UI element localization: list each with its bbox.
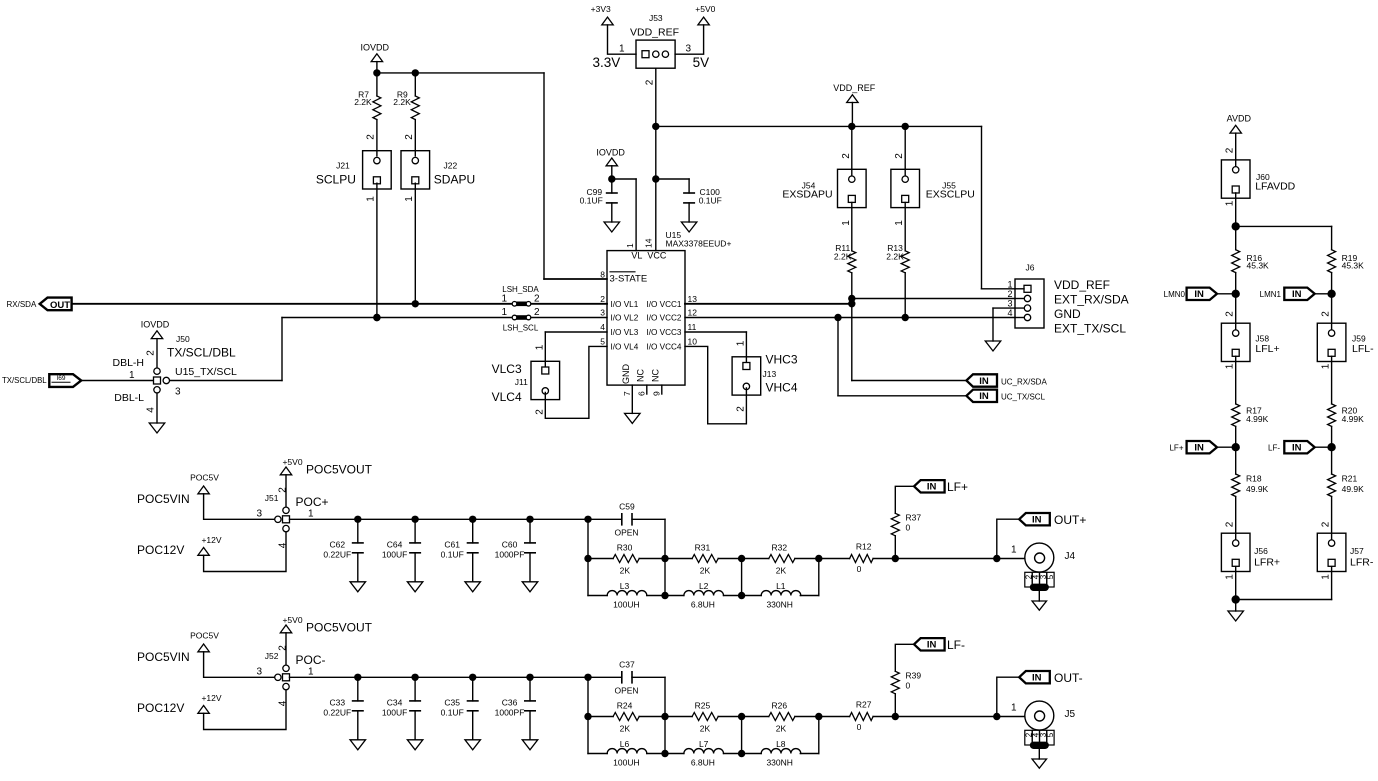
svg-text:I/O VCC4: I/O VCC4 [646, 343, 681, 352]
svg-text:0.22UF: 0.22UF [323, 549, 351, 559]
svg-text:VHC4: VHC4 [766, 381, 798, 395]
svg-text:1: 1 [894, 220, 905, 226]
svg-text:IN: IN [927, 482, 937, 493]
svg-text:3.3V: 3.3V [593, 55, 621, 70]
svg-text:POC-: POC- [296, 653, 326, 667]
svg-text:VDD_REF: VDD_REF [630, 27, 679, 39]
svg-text:VDD_REF: VDD_REF [1054, 278, 1110, 292]
svg-text:NC: NC [650, 369, 660, 382]
svg-text:I/O VCC3: I/O VCC3 [646, 328, 681, 337]
svg-text:R30: R30 [617, 543, 633, 553]
svg-text:12: 12 [688, 308, 698, 318]
svg-text:EXT_TX/SCL: EXT_TX/SCL [1054, 322, 1126, 336]
svg-text:2: 2 [534, 294, 540, 305]
svg-text:J50: J50 [176, 334, 190, 344]
svg-text:EXT_RX/SDA: EXT_RX/SDA [1054, 293, 1129, 307]
svg-text:U15_TX/SCL: U15_TX/SCL [175, 366, 237, 378]
svg-text:1: 1 [1321, 574, 1332, 580]
svg-text:EXSCLPU: EXSCLPU [926, 189, 975, 201]
svg-text:LFR+: LFR+ [1254, 556, 1280, 568]
svg-text:POC5VOUT: POC5VOUT [306, 621, 373, 635]
svg-text:UC_RX/SDA: UC_RX/SDA [1001, 377, 1047, 386]
svg-text:4: 4 [277, 700, 288, 706]
svg-text:MAX3378EEUD+: MAX3378EEUD+ [666, 238, 732, 248]
svg-text:+5V0: +5V0 [282, 615, 302, 625]
svg-text:J5: J5 [1065, 709, 1076, 720]
svg-text:2: 2 [894, 153, 905, 159]
svg-text:3: 3 [175, 387, 181, 398]
svg-text:+5V0: +5V0 [695, 4, 715, 14]
svg-text:1: 1 [501, 294, 507, 305]
svg-text:GND: GND [621, 364, 631, 385]
svg-text:R24: R24 [617, 701, 633, 711]
svg-text:2K: 2K [620, 723, 631, 733]
svg-text:1000PF: 1000PF [495, 549, 525, 559]
svg-text:LF-: LF- [947, 638, 965, 652]
svg-text:2: 2 [735, 406, 746, 412]
svg-text:1: 1 [735, 340, 746, 346]
svg-text:1: 1 [1225, 574, 1236, 580]
svg-text:+12V: +12V [201, 693, 221, 703]
svg-text:R26: R26 [772, 701, 788, 711]
svg-text:LFR-: LFR- [1350, 556, 1374, 568]
svg-text:IN: IN [1032, 673, 1042, 684]
svg-text:2K: 2K [620, 565, 631, 575]
svg-text:13: 13 [688, 294, 698, 304]
svg-text:+3V3: +3V3 [591, 4, 611, 14]
svg-text:C33: C33 [330, 698, 346, 708]
svg-text:DBL-H: DBL-H [112, 357, 144, 369]
svg-text:J57: J57 [1350, 546, 1364, 556]
svg-text:L7: L7 [699, 739, 709, 749]
svg-text:C62: C62 [330, 540, 346, 550]
svg-text:C61: C61 [444, 540, 460, 550]
svg-text:49.9K: 49.9K [1246, 484, 1269, 494]
svg-text:1000PF: 1000PF [495, 707, 525, 717]
svg-text:IOVDD: IOVDD [360, 42, 389, 52]
svg-text:2: 2 [277, 645, 288, 651]
svg-text:+12V: +12V [201, 535, 221, 545]
svg-text:8: 8 [600, 269, 605, 279]
svg-text:IOVDD: IOVDD [596, 148, 625, 158]
svg-text:4.99K: 4.99K [1342, 414, 1365, 424]
svg-text:9: 9 [652, 391, 662, 396]
svg-text:R25: R25 [695, 701, 711, 711]
svg-text:1: 1 [308, 667, 314, 678]
svg-text:0: 0 [906, 680, 911, 690]
svg-text:LF+: LF+ [1169, 444, 1183, 453]
svg-text:2: 2 [1321, 311, 1332, 317]
svg-text:2: 2 [1225, 147, 1236, 153]
svg-text:POC12V: POC12V [137, 543, 184, 557]
svg-text:RX/SDA: RX/SDA [7, 300, 37, 309]
svg-text:2K: 2K [700, 565, 711, 575]
svg-text:L3: L3 [620, 581, 630, 591]
svg-text:L6: L6 [620, 739, 630, 749]
svg-text:J11: J11 [515, 377, 528, 387]
svg-text:49.9K: 49.9K [1342, 484, 1365, 494]
svg-text:2: 2 [645, 79, 656, 85]
svg-text:I/O VL4: I/O VL4 [611, 343, 639, 352]
svg-text:1: 1 [501, 307, 507, 318]
svg-text:LSH_SCL: LSH_SCL [503, 324, 539, 333]
svg-text:R21: R21 [1342, 474, 1358, 484]
svg-text:POC12V: POC12V [137, 701, 184, 715]
svg-text:1: 1 [1011, 703, 1017, 714]
svg-text:AVDD: AVDD [1227, 113, 1252, 123]
svg-text:I69: I69 [56, 375, 65, 382]
svg-text:0.1UF: 0.1UF [699, 195, 722, 205]
svg-text:EXSDAPU: EXSDAPU [782, 189, 832, 201]
svg-text:C59: C59 [619, 501, 635, 511]
svg-text:R39: R39 [906, 670, 922, 680]
svg-text:J52: J52 [265, 651, 279, 661]
svg-text:+5V0: +5V0 [282, 457, 302, 467]
svg-text:2: 2 [277, 487, 288, 493]
svg-text:VLC4: VLC4 [492, 390, 522, 404]
svg-text:I/O VCC1: I/O VCC1 [646, 300, 681, 309]
svg-text:4: 4 [600, 322, 605, 332]
svg-text:J21: J21 [336, 161, 350, 171]
svg-text:J22: J22 [444, 161, 458, 171]
svg-text:3: 3 [686, 44, 692, 55]
svg-text:1: 1 [365, 196, 376, 202]
svg-text:LFAVDD: LFAVDD [1255, 181, 1295, 193]
svg-text:LFL+: LFL+ [1255, 343, 1279, 355]
svg-text:NC: NC [635, 369, 645, 382]
svg-text:2: 2 [1225, 311, 1236, 317]
svg-text:I/O VL1: I/O VL1 [611, 300, 639, 309]
svg-text:2.2K: 2.2K [354, 97, 372, 107]
svg-text:5V: 5V [693, 55, 710, 70]
svg-text:1: 1 [619, 44, 625, 55]
svg-text:R37: R37 [906, 512, 922, 522]
svg-text:J13: J13 [763, 369, 777, 379]
svg-text:IN: IN [979, 391, 989, 402]
svg-text:1: 1 [404, 196, 415, 202]
svg-text:LF-: LF- [1268, 444, 1280, 453]
svg-text:R32: R32 [772, 543, 788, 553]
svg-text:POC5V: POC5V [190, 631, 219, 641]
svg-text:0: 0 [857, 564, 862, 574]
svg-text:3: 3 [256, 667, 262, 678]
svg-text:L1: L1 [776, 581, 786, 591]
svg-text:0.1UF: 0.1UF [580, 195, 603, 205]
svg-text:R31: R31 [695, 543, 711, 553]
svg-text:LFL-: LFL- [1352, 343, 1374, 355]
svg-text:2: 2 [841, 153, 852, 159]
svg-text:2: 2 [1225, 521, 1236, 527]
svg-text:C37: C37 [619, 659, 635, 669]
svg-text:1: 1 [841, 220, 852, 226]
svg-text:1: 1 [1225, 200, 1236, 206]
svg-text:7: 7 [622, 391, 632, 396]
svg-text:2.2K: 2.2K [393, 97, 411, 107]
svg-text:6.8UH: 6.8UH [691, 599, 715, 609]
svg-text:C60: C60 [502, 540, 518, 550]
svg-text:2K: 2K [700, 723, 711, 733]
svg-text:POC+: POC+ [296, 495, 329, 509]
svg-text:2: 2 [404, 134, 415, 140]
svg-text:VCC: VCC [647, 251, 667, 261]
svg-text:IN: IN [1032, 515, 1042, 526]
svg-text:IN: IN [1292, 443, 1302, 454]
svg-text:J51: J51 [265, 493, 279, 503]
svg-text:J6: J6 [1026, 263, 1035, 273]
svg-text:2.2K: 2.2K [886, 251, 904, 261]
svg-text:4: 4 [146, 407, 157, 413]
svg-text:VHC3: VHC3 [766, 353, 798, 367]
svg-text:45.3K: 45.3K [1247, 261, 1270, 271]
svg-text:0: 0 [906, 522, 911, 532]
svg-text:330NH: 330NH [766, 599, 792, 609]
svg-text:POC5VIN: POC5VIN [137, 650, 190, 664]
svg-text:J53: J53 [649, 13, 663, 23]
svg-text:VLC3: VLC3 [492, 362, 522, 376]
svg-text:OUT: OUT [50, 300, 70, 311]
svg-text:J4: J4 [1065, 551, 1076, 562]
svg-text:VL: VL [631, 251, 642, 261]
svg-text:R27: R27 [856, 699, 872, 709]
svg-text:POC5VIN: POC5VIN [137, 492, 190, 506]
svg-text:6.8UH: 6.8UH [691, 757, 715, 767]
svg-text:45.3K: 45.3K [1342, 261, 1365, 271]
svg-text:2.2K: 2.2K [834, 251, 852, 261]
svg-text:6: 6 [637, 391, 647, 396]
svg-text:L8: L8 [776, 739, 786, 749]
svg-text:IOVDD: IOVDD [141, 320, 170, 330]
svg-text:J56: J56 [1254, 546, 1268, 556]
svg-text:2: 2 [1321, 521, 1332, 527]
svg-text:100UH: 100UH [613, 757, 639, 767]
svg-text:14: 14 [643, 238, 653, 248]
svg-text:OUT+: OUT+ [1054, 513, 1086, 527]
svg-text:4: 4 [277, 542, 288, 548]
svg-text:2: 2 [534, 307, 540, 318]
svg-text:VDD_REF: VDD_REF [833, 83, 876, 93]
svg-text:L2: L2 [699, 581, 709, 591]
svg-text:OPEN: OPEN [614, 528, 638, 538]
svg-text:1: 1 [534, 344, 545, 350]
svg-text:4: 4 [1007, 308, 1012, 318]
svg-text:IN: IN [1292, 289, 1302, 300]
svg-text:4.99K: 4.99K [1246, 414, 1269, 424]
svg-text:TX/SCL/DBL: TX/SCL/DBL [167, 346, 236, 360]
svg-text:100UH: 100UH [613, 599, 639, 609]
svg-text:0: 0 [857, 722, 862, 732]
svg-text:R12: R12 [856, 541, 872, 551]
svg-text:C35: C35 [444, 698, 460, 708]
svg-text:2: 2 [534, 409, 545, 415]
svg-text:IN: IN [927, 640, 937, 651]
svg-text:I/O VL3: I/O VL3 [611, 328, 639, 337]
svg-text:TX/SCL/DBL: TX/SCL/DBL [2, 376, 47, 385]
svg-text:IN: IN [1194, 289, 1204, 300]
svg-text:IN: IN [979, 376, 989, 387]
svg-text:11: 11 [688, 322, 697, 332]
svg-text:0.1UF: 0.1UF [441, 707, 464, 717]
svg-text:1: 1 [1011, 545, 1017, 556]
svg-text:OPEN: OPEN [614, 686, 638, 696]
svg-text:LF+: LF+ [947, 480, 968, 494]
svg-text:LMN0: LMN0 [1164, 290, 1186, 299]
svg-text:2K: 2K [776, 565, 787, 575]
svg-text:100UF: 100UF [382, 549, 408, 559]
svg-text:DBL-L: DBL-L [114, 392, 144, 404]
svg-text:5: 5 [600, 337, 605, 347]
svg-text:1: 1 [1007, 279, 1012, 289]
svg-text:0.22UF: 0.22UF [323, 707, 351, 717]
svg-text:2: 2 [600, 294, 605, 304]
svg-text:GND: GND [1054, 307, 1081, 321]
svg-text:I/O VL2: I/O VL2 [611, 314, 639, 323]
svg-text:330NH: 330NH [766, 757, 792, 767]
svg-text:2: 2 [365, 134, 376, 140]
svg-text:3-STATE: 3-STATE [610, 274, 648, 285]
svg-text:C64: C64 [387, 540, 403, 550]
svg-text:UC_TX/SCL: UC_TX/SCL [1001, 393, 1046, 402]
svg-text:100UF: 100UF [382, 707, 408, 717]
svg-text:1: 1 [1321, 363, 1332, 369]
svg-text:OUT-: OUT- [1054, 671, 1083, 685]
svg-text:POC5VOUT: POC5VOUT [306, 463, 373, 477]
svg-text:5: 5 [1046, 732, 1055, 737]
svg-text:C34: C34 [387, 698, 403, 708]
svg-text:0.1UF: 0.1UF [441, 549, 464, 559]
svg-text:LMN1: LMN1 [1260, 290, 1282, 299]
svg-text:3: 3 [256, 509, 262, 520]
svg-text:SDAPU: SDAPU [434, 173, 475, 187]
svg-text:1: 1 [308, 509, 314, 520]
svg-text:1: 1 [129, 370, 135, 381]
svg-text:2K: 2K [776, 723, 787, 733]
svg-text:1: 1 [1225, 363, 1236, 369]
svg-text:2: 2 [1007, 289, 1012, 299]
svg-text:2: 2 [146, 350, 157, 356]
svg-text:3: 3 [600, 308, 605, 318]
svg-text:C36: C36 [502, 698, 518, 708]
svg-text:POC5V: POC5V [190, 473, 219, 483]
svg-text:5: 5 [1046, 574, 1055, 579]
svg-text:I/O VCC2: I/O VCC2 [646, 314, 681, 323]
svg-text:10: 10 [688, 337, 698, 347]
svg-text:SCLPU: SCLPU [316, 173, 356, 187]
svg-text:R18: R18 [1246, 474, 1262, 484]
svg-text:IN: IN [1194, 443, 1204, 454]
svg-text:1: 1 [625, 243, 635, 248]
